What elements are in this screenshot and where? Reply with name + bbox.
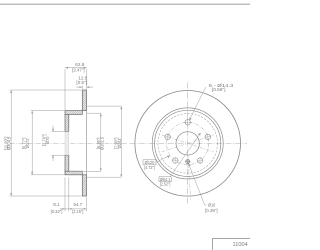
disc upper half (hatched): [82, 90, 86, 111]
bolt hole ticks 18deg: [204, 136, 211, 138]
bolt hole top: [185, 120, 190, 125]
svg-text:[2.76"]: [2.76"]: [42, 134, 47, 146]
svg-text:8.1: 8.1: [53, 202, 60, 207]
leader 5 bolt holes: [189, 87, 206, 120]
svg-text:[6.77"]: [6.77"]: [22, 138, 27, 150]
svg-text:[0.32"]: [0.32"]: [51, 209, 63, 214]
dimension thickness 12.6: [76, 86, 93, 89]
set screw hole (hatched): [185, 160, 190, 164]
bolt hole 306deg: [197, 158, 202, 163]
mounting flange lower (hatched): [65, 155, 69, 171]
set screw radial centerline: [188, 155, 191, 200]
title block: [213, 239, 258, 250]
radial centerline 18deg: [162, 135, 214, 152]
dimension height 62.8: [65, 68, 87, 110]
dimension hat Ø172: [31, 111, 65, 175]
dimension bore Ø70: [52, 126, 66, 161]
svg-text:[2.52"]: [2.52"]: [160, 181, 171, 186]
bolt hole 18deg: [205, 134, 210, 139]
svg-text:[2.47"]: [2.47"]: [72, 68, 85, 73]
svg-text:[4.72"]: [4.72"]: [144, 165, 155, 170]
hat wall lower (hatched): [65, 171, 82, 175]
hidden hat inner circle (dashed): [158, 114, 218, 174]
bolt hole top centerline tick: [187, 117, 189, 128]
disc inboard face line: [86, 90, 88, 196]
disc lower half (hatched): [82, 175, 86, 196]
bolt hole 162deg: [165, 134, 170, 139]
hat outline circle: [155, 110, 221, 176]
svg-text:[0.56"]: [0.56"]: [212, 87, 226, 92]
bolt hole ticks 162deg: [164, 136, 171, 138]
svg-text:Ø10: Ø10: [208, 203, 216, 208]
bolt circle (dash-dot): [167, 122, 209, 164]
dimension friction ID Ø203: [87, 106, 121, 177]
top border line: [0, 4, 250, 5]
boxed label Ø64.1: [159, 177, 171, 182]
horizontal centerline: [130, 142, 248, 144]
svg-text:[0.5"]: [0.5"]: [76, 80, 87, 85]
leader bolt circle dia: [156, 155, 170, 162]
svg-text:54.7: 54.7: [74, 202, 83, 207]
dimensions 8.1 and 54.7: [60, 178, 87, 212]
dimension OD Ø304.5: [10, 90, 82, 196]
dimension hat inner Ø161.5: [69, 113, 101, 171]
svg-text:[2.15"]: [2.15"]: [72, 209, 83, 214]
svg-text:11004: 11004: [233, 242, 248, 248]
leader set screw: [189, 164, 207, 205]
svg-text:[7.99"]: [7.99"]: [114, 138, 119, 150]
hat wall upper (hatched): [65, 111, 82, 115]
mounting flange upper (hatched): [65, 114, 69, 131]
bolt hole ticks 234deg: [172, 160, 179, 162]
svg-text:62.8: 62.8: [75, 62, 85, 67]
radial centerline 162deg: [162, 135, 214, 152]
friction surface ID circle: [152, 108, 223, 179]
center bore edges in flange: [65, 132, 69, 156]
vertical centerline: [187, 83, 189, 204]
leader center bore dia: [170, 133, 201, 177]
bolt hole ticks 306deg: [197, 160, 204, 162]
boxed label Ø120: [143, 160, 156, 165]
svg-text:[0.39"]: [0.39"]: [205, 208, 218, 213]
svg-text:[6.36"]: [6.36"]: [96, 138, 101, 150]
bolt hole 234deg: [173, 158, 178, 163]
rotor axis centerline: [10, 142, 127, 144]
svg-text:[11.99"]: [11.99"]: [3, 137, 8, 151]
outer diameter circle: [135, 91, 241, 197]
center bore circle: [176, 132, 199, 155]
